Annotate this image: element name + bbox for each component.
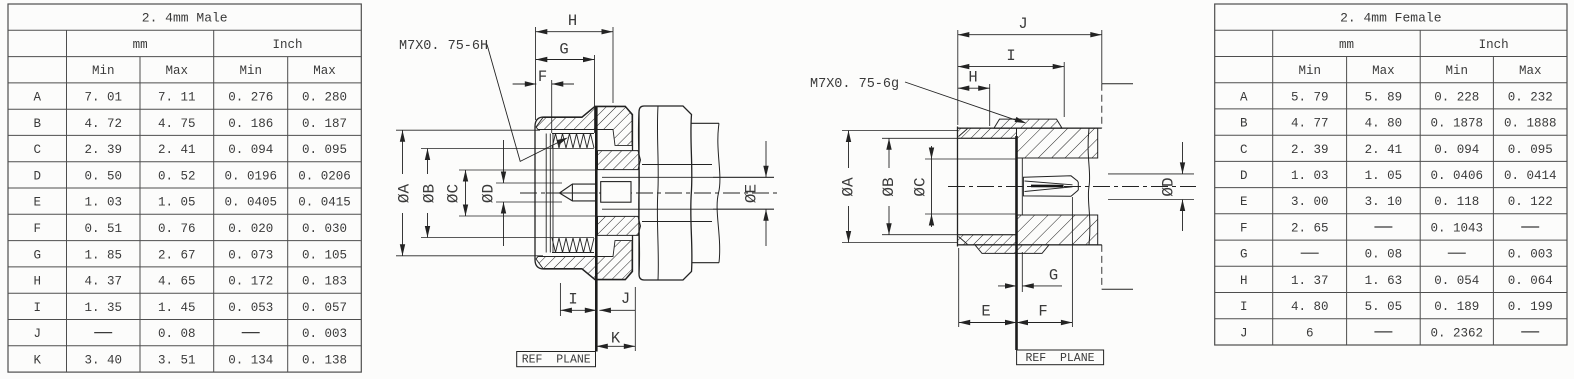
female table frame [1215,4,1567,345]
svg-text:B: B [1240,117,1248,131]
female REF PLANE box [1017,350,1104,365]
female body outline [958,127,1102,247]
svg-text:0. 52: 0. 52 [158,169,196,183]
svg-text:0. 003: 0. 003 [302,327,347,341]
svg-text:4. 80: 4. 80 [1291,300,1329,314]
svg-text:4. 72: 4. 72 [84,117,122,131]
svg-text:Max: Max [313,64,336,78]
svg-text:0. 053: 0. 053 [228,301,273,315]
svg-text:0. 199: 0. 199 [1508,300,1553,314]
svg-text:0. 51: 0. 51 [84,222,122,236]
svg-text:J: J [621,290,630,308]
male reference plane thick line [595,107,598,352]
svg-text:A: A [33,91,41,105]
svg-text:C: C [1240,143,1248,157]
female top front wall hatch [958,128,1017,138]
female reference plane thick line [1015,136,1018,350]
male dimension J [599,309,635,311]
svg-text:M7X0. 75-6H: M7X0. 75-6H [399,39,488,54]
svg-text:ØA: ØA [396,184,414,204]
svg-text:I: I [33,301,41,315]
svg-text:2. 4mm Male: 2. 4mm Male [142,11,228,26]
svg-text:0. 08: 0. 08 [158,327,196,341]
male dimension G [536,59,595,61]
svg-text:1. 45: 1. 45 [158,301,196,315]
svg-text:0. 0196: 0. 0196 [224,169,277,183]
female top rear wall hatch [1017,128,1098,158]
svg-text:0. 1888: 0. 1888 [1504,117,1557,131]
female hidden rear outline dashed [1101,84,1103,128]
male dimension dia D [503,140,505,183]
svg-text:7. 01: 7. 01 [84,91,122,105]
svg-text:0. 187: 0. 187 [302,117,347,131]
svg-text:K: K [33,353,41,367]
svg-text:0. 134: 0. 134 [228,353,273,367]
svg-text:1. 05: 1. 05 [1365,169,1403,183]
svg-text:2. 39: 2. 39 [1291,143,1329,157]
svg-text:4. 80: 4. 80 [1365,117,1403,131]
svg-text:2. 4mm Female: 2. 4mm Female [1340,11,1441,26]
svg-text:J: J [1018,15,1027,33]
svg-text:2. 39: 2. 39 [84,143,122,157]
female break line wavy [1088,128,1090,245]
male internal thread zigzag (bottom) [552,238,594,253]
svg-text:0. 073: 0. 073 [228,248,273,262]
svg-text:3. 40: 3. 40 [84,353,122,367]
male dimension dia A [402,130,404,174]
male dimension dia E [765,141,767,177]
svg-text:2. 67: 2. 67 [158,248,196,262]
svg-text:0. 0415: 0. 0415 [298,196,351,210]
svg-text:7. 11: 7. 11 [158,91,196,105]
svg-text:G: G [1049,267,1058,285]
svg-text:F: F [33,222,41,236]
svg-text:0. 228: 0. 228 [1434,90,1479,104]
svg-text:G: G [559,41,568,59]
svg-text:ØC: ØC [445,184,463,203]
male thread bore vertical lines [545,134,547,253]
female dielectric boundary lines [1017,157,1098,159]
svg-text:0. 276: 0. 276 [228,91,273,105]
female dimension J [958,34,1102,36]
male dimension K [596,345,635,347]
svg-text:J: J [1240,326,1248,340]
svg-text:0. 003: 0. 003 [1508,248,1553,262]
svg-text:0. 094: 0. 094 [1434,143,1479,157]
svg-text:REF PLANE: REF PLANE [1025,352,1094,365]
male nut front wall hatch (top) [536,107,632,146]
svg-text:0. 057: 0. 057 [302,301,347,315]
svg-text:0. 020: 0. 020 [228,222,273,236]
svg-text:D: D [33,169,41,183]
svg-text:0. 08: 0. 08 [1365,248,1403,262]
svg-text:4. 75: 4. 75 [158,117,196,131]
female dimension dia B [888,138,890,168]
svg-text:4. 77: 4. 77 [1291,117,1329,131]
svg-text:0. 095: 0. 095 [302,143,347,157]
female cavity mouth chamfer top [959,129,968,137]
male back insulator block hatch (top) [598,151,641,170]
svg-text:ØB: ØB [421,184,439,203]
svg-text:Max: Max [1519,64,1542,78]
male dimension F [513,83,537,85]
svg-text:2. 41: 2. 41 [1365,143,1403,157]
svg-text:mm: mm [1339,38,1354,52]
svg-text:0. 76: 0. 76 [158,222,196,236]
svg-text:1. 85: 1. 85 [84,248,122,262]
female connector centerline [948,186,1196,188]
svg-text:6: 6 [1306,326,1314,340]
svg-text:5. 79: 5. 79 [1291,90,1329,104]
svg-text:A: A [1240,90,1248,104]
svg-text:H: H [33,275,41,289]
svg-text:0. 138: 0. 138 [302,353,347,367]
svg-text:F: F [1038,303,1047,321]
svg-text:0. 0405: 0. 0405 [224,196,277,210]
svg-text:0. 054: 0. 054 [1434,274,1479,288]
svg-text:G: G [1240,248,1248,262]
female external thread bump bottom hatch [975,245,1049,254]
svg-text:5. 89: 5. 89 [1365,90,1403,104]
svg-text:3. 10: 3. 10 [1365,195,1403,209]
male hex flat arc line [657,106,658,280]
svg-text:2. 41: 2. 41 [158,143,196,157]
svg-text:Max: Max [166,64,189,78]
svg-text:3. 00: 3. 00 [1291,195,1329,209]
svg-text:Inch: Inch [272,38,302,52]
svg-text:3. 51: 3. 51 [158,353,196,367]
male dimension H [536,31,614,33]
male pin axis solid segment [546,192,596,194]
svg-text:Min: Min [92,64,115,78]
male nut front wall hatch (bottom) [536,241,632,280]
female socket cavity lines [882,137,1017,139]
female dimension E [959,322,1017,324]
male center pin with cone tip [560,184,597,201]
male connector centerline [520,192,778,194]
svg-text:2. 65: 2. 65 [1291,222,1329,236]
svg-text:Min: Min [239,64,262,78]
svg-text:mm: mm [133,38,148,52]
female dimension H [958,87,990,89]
svg-text:0. 186: 0. 186 [228,117,273,131]
male contact holder [601,182,631,203]
svg-text:Max: Max [1372,64,1395,78]
female dimension G [998,285,1017,287]
male back insulator block hatch (bottom) [598,216,641,235]
female socket fingers [1023,176,1078,197]
svg-text:REF PLANE: REF PLANE [522,354,591,367]
male coupling nut front face [534,127,536,260]
male dimension dia B [427,149,429,175]
svg-text:4. 65: 4. 65 [158,275,196,289]
svg-text:ØD: ØD [480,184,498,203]
svg-text:0. 030: 0. 030 [302,222,347,236]
svg-text:0. 0414: 0. 0414 [1504,169,1557,183]
svg-text:0. 1043: 0. 1043 [1431,222,1484,236]
svg-text:G: G [33,248,41,262]
svg-text:0. 122: 0. 122 [1508,195,1553,209]
svg-text:0. 2362: 0. 2362 [1431,326,1484,340]
svg-text:I: I [1240,300,1248,314]
male coupling nut outer profile [535,106,633,150]
male bore lines [602,176,774,178]
female bottom rear wall hatch [1017,215,1098,245]
svg-text:0. 094: 0. 094 [228,143,273,157]
svg-text:4. 37: 4. 37 [84,275,122,289]
svg-text:0. 189: 0. 189 [1434,300,1479,314]
male dimension I [560,309,596,311]
female bottom front wall hatch [958,235,1017,245]
male REF PLANE box [517,352,596,367]
svg-text:1. 35: 1. 35 [84,301,122,315]
svg-text:5. 05: 5. 05 [1365,300,1403,314]
svg-text:0. 50: 0. 50 [84,169,122,183]
svg-text:0. 118: 0. 118 [1434,195,1479,209]
svg-text:ØC: ØC [912,177,930,196]
male internal thread zigzag (top) [552,134,594,149]
svg-text:ØA: ØA [840,177,858,197]
female dimension dia C [931,146,933,227]
male table frame [8,4,361,372]
svg-text:0. 0206: 0. 0206 [298,169,351,183]
male hex nut body [639,106,692,280]
female external thread bump top hatch [994,119,1062,128]
female dielectric face line [1021,158,1023,215]
svg-text:H: H [1240,274,1248,288]
svg-text:Inch: Inch [1479,38,1509,52]
female dimension I [958,66,1064,68]
svg-text:Min: Min [1298,64,1321,78]
svg-text:J: J [33,327,41,341]
svg-text:F: F [538,68,547,86]
svg-text:1. 03: 1. 03 [84,196,122,210]
svg-text:1. 03: 1. 03 [1291,169,1329,183]
svg-text:E: E [33,196,41,210]
female dimension dia A [848,131,850,169]
svg-text:H: H [968,69,977,87]
svg-text:ØD: ØD [1160,177,1178,196]
svg-text:H: H [568,12,577,30]
svg-text:0. 105: 0. 105 [302,248,347,262]
female dimension dia D [1182,142,1184,174]
svg-text:0. 280: 0. 280 [302,91,347,105]
svg-text:I: I [1006,47,1015,65]
svg-text:I: I [568,291,577,309]
svg-text:M7X0. 75-6g: M7X0. 75-6g [810,77,899,92]
svg-text:F: F [1240,222,1248,236]
male rear body with break line [692,123,720,262]
svg-text:E: E [1240,195,1248,209]
female socket slot thick line [1031,185,1064,188]
svg-text:0. 064: 0. 064 [1508,274,1553,288]
svg-text:0. 232: 0. 232 [1508,90,1553,104]
svg-text:1. 63: 1. 63 [1365,274,1403,288]
svg-text:0. 095: 0. 095 [1508,143,1553,157]
svg-text:D: D [1240,169,1248,183]
svg-text:ØE: ØE [743,184,761,203]
svg-text:C: C [33,143,41,157]
svg-text:ØB: ØB [880,177,898,196]
svg-text:K: K [611,330,621,348]
svg-text:0. 183: 0. 183 [302,275,347,289]
svg-text:E: E [981,303,990,321]
svg-text:0. 0406: 0. 0406 [1431,169,1484,183]
svg-text:B: B [33,117,41,131]
svg-text:1. 37: 1. 37 [1291,274,1329,288]
svg-text:0. 172: 0. 172 [228,275,273,289]
svg-text:Min: Min [1446,64,1469,78]
male dimension dia C [465,170,467,216]
female dimension F [1017,322,1073,324]
female cavity mouth chamfer bottom [959,237,968,245]
svg-text:0. 1878: 0. 1878 [1431,117,1484,131]
svg-text:1. 05: 1. 05 [158,196,196,210]
